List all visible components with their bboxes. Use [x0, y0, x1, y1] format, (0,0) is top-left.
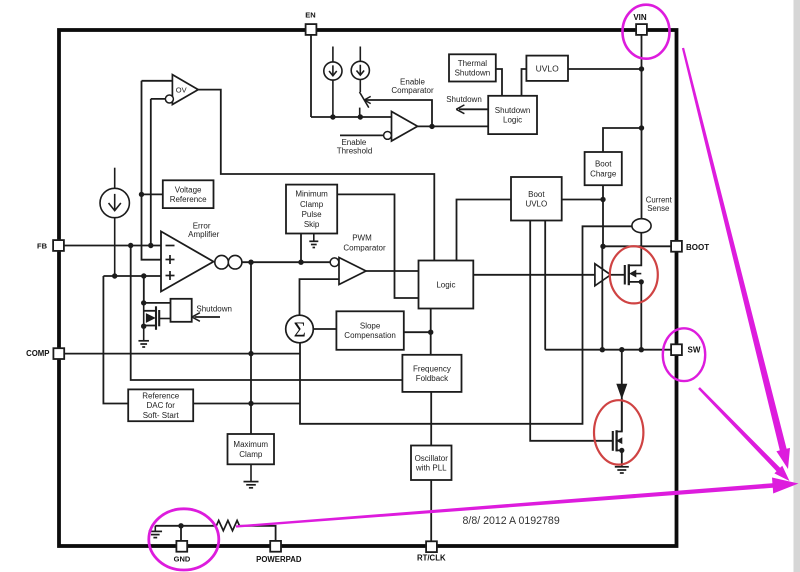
annotation arrow from GND resistor to right edge: [236, 478, 799, 528]
wire min clamp pulse skip to logic: [337, 194, 418, 298]
svg-text:PWM: PWM: [352, 234, 372, 243]
svg-text:Shutdown: Shutdown: [196, 305, 232, 314]
wire voltage reference tap: [142, 193, 163, 195]
summing node sigma: [286, 315, 314, 343]
label Shutdown near logic: [446, 95, 482, 104]
wire soft-start node: [103, 275, 161, 277]
annotation arrow from SW to bottom right: [698, 387, 789, 481]
label FB: [37, 241, 48, 250]
wire oscillator to RT/CLK pin: [430, 480, 432, 541]
block Shutdown gate box: [171, 299, 192, 322]
wire reference line to error amp: [142, 81, 162, 260]
wire OV inverting input from FB: [151, 99, 166, 246]
block Boot Charge: [585, 152, 622, 185]
wire reference DAC right: [193, 403, 300, 405]
wire pwm comparator plus input from sigma: [300, 279, 340, 315]
error amp output gm symbol circles: [215, 255, 242, 269]
pin VIN: [636, 24, 647, 35]
wire boot charge to BOOT pin rail: [602, 185, 604, 246]
ground below low-side fet: [615, 467, 629, 473]
block Minimum Clamp Pulse Skip: [286, 185, 337, 234]
block UVLO: [526, 56, 568, 81]
label date code: [463, 515, 560, 527]
svg-text:BOOT: BOOT: [686, 243, 709, 252]
wire logic to slope comp node and frequency foldback: [430, 309, 432, 355]
svg-text:Logic: Logic: [503, 116, 522, 125]
wire EN horizontal rail to enable comparator: [311, 116, 392, 118]
wire FB pin to error amp: [64, 245, 161, 247]
label Error Amplifier: [188, 222, 219, 240]
pin COMP: [53, 348, 64, 359]
current source Ip (EN pullup 1): [324, 47, 342, 118]
svg-text:Maximum: Maximum: [233, 440, 268, 449]
label BOOT: [686, 243, 709, 252]
svg-text:GND: GND: [174, 554, 191, 563]
svg-text:Shutdown: Shutdown: [446, 95, 482, 104]
arrow Shutdown into gate box: [192, 313, 220, 322]
wire min clamp to error amp output: [300, 234, 302, 263]
svg-text:Sense: Sense: [647, 204, 669, 213]
svg-text:Reference: Reference: [170, 195, 207, 204]
svg-text:Comparator: Comparator: [343, 243, 386, 252]
high-side gate driver amplifier: [595, 247, 625, 349]
wire COMP column: [250, 262, 252, 434]
block Oscillator with PLL: [411, 446, 452, 481]
label SW: [688, 346, 701, 355]
svg-text:Threshold: Threshold: [337, 147, 373, 156]
wire COMP pin: [64, 353, 300, 355]
pin POWERPAD: [270, 541, 281, 552]
svg-text:UVLO: UVLO: [536, 63, 560, 73]
svg-text:Amplifier: Amplifier: [188, 230, 219, 239]
transistor low-side NMOS: [613, 399, 625, 467]
pin SW: [671, 344, 682, 355]
svg-text:Boot: Boot: [528, 190, 545, 199]
label Shutdown near gate box: [196, 305, 232, 314]
annotation magenta circle around VIN: [623, 5, 670, 59]
current source soft-start: [100, 168, 129, 276]
transistor high-side NMOS: [625, 233, 644, 350]
svg-text:Shutdown: Shutdown: [495, 106, 531, 115]
block Maximum Clamp: [228, 434, 275, 464]
svg-text:VIN: VIN: [633, 13, 647, 22]
wire GND network: [155, 526, 216, 541]
current sense element: [632, 219, 651, 233]
svg-text:Voltage: Voltage: [175, 185, 202, 194]
wire pwm output to logic: [366, 270, 419, 272]
svg-text:Shutdown: Shutdown: [455, 69, 491, 78]
label Current Sense: [646, 196, 673, 213]
ground at GND pin: [149, 526, 163, 538]
wire shutdown fet drop: [143, 276, 145, 303]
label COMP: [26, 349, 49, 358]
wire logic to high-side driver: [473, 274, 595, 276]
label POWERPAD: [256, 555, 302, 564]
wire resistor to POWERPAD: [240, 526, 276, 541]
svg-text:Boot: Boot: [595, 160, 612, 169]
wire SW rail: [545, 349, 671, 351]
label GND: [174, 554, 191, 563]
label PWM Comparator: [343, 234, 386, 253]
label VIN: [633, 13, 647, 22]
pin RT/CLK: [426, 541, 437, 552]
pin BOOT: [671, 241, 682, 252]
arrow into low-side fet: [617, 384, 627, 398]
svg-text:Compensation: Compensation: [344, 331, 396, 340]
wire error amp output: [242, 261, 330, 263]
wire sigma to slope compensation: [313, 328, 336, 330]
annotation red circle around high-side fet: [610, 246, 658, 303]
resistor between GND and POWERPAD: [216, 521, 239, 531]
wire enable comparator output to shutdown logic: [418, 125, 489, 127]
transistor shutdown pulldown FET: [144, 303, 171, 341]
svg-text:POWERPAD: POWERPAD: [256, 555, 302, 564]
svg-text:DAC for: DAC for: [146, 401, 175, 410]
annotation red circle around low-side fet: [594, 400, 643, 464]
op-amp PWM Comparator: [330, 258, 366, 285]
block Thermal Shutdown: [449, 54, 496, 81]
wire SW to low-side fet: [621, 350, 623, 432]
svg-text:Foldback: Foldback: [416, 374, 449, 383]
annotation magenta circle around SW: [663, 328, 705, 381]
label EN: [305, 11, 315, 20]
svg-text:Clamp: Clamp: [239, 450, 263, 459]
block Shutdown Logic: [488, 96, 537, 134]
label Enable Threshold: [337, 138, 373, 156]
svg-text:Oscillator: Oscillator: [415, 454, 449, 463]
wire boot uvlo to low-side gate line: [530, 221, 613, 441]
block Voltage Reference: [163, 180, 214, 208]
wire uvlo left to shutdown logic: [522, 69, 527, 96]
label RT/CLK: [417, 554, 446, 563]
arrow Shutdown out of shutdown logic: [456, 105, 488, 114]
annotation magenta circle around GND: [149, 509, 219, 570]
svg-text:Frequency: Frequency: [413, 364, 451, 373]
svg-text:UVLO: UVLO: [525, 199, 547, 208]
wire OV comparator output to logic: [198, 90, 434, 261]
svg-text:FB: FB: [37, 241, 48, 250]
svg-text:Clamp: Clamp: [300, 200, 324, 209]
wire VIN rail down: [641, 35, 643, 219]
op-amp Error Amplifier: [161, 231, 214, 291]
pin FB: [53, 240, 64, 251]
svg-text:EN: EN: [305, 11, 315, 20]
svg-text:Skip: Skip: [304, 220, 320, 229]
wire OV top input: [142, 80, 173, 82]
wire current sense tap: [300, 226, 632, 423]
ground below min clamp box: [309, 234, 318, 248]
svg-text:8/8/ 2012 A 0192789: 8/8/ 2012 A 0192789: [463, 515, 560, 527]
block Frequency Foldback: [402, 355, 461, 392]
wire VIN rail to boot charge: [603, 128, 642, 152]
wire enable threshold input: [340, 134, 384, 136]
svg-text:with PLL: with PLL: [415, 463, 447, 472]
block Boot UVLO: [511, 177, 562, 221]
wire soft-start branch to reference DAC: [103, 276, 128, 404]
wire shutdown fet to gate box: [144, 302, 171, 304]
ground below shutdown FET: [138, 341, 149, 347]
svg-text:Pulse: Pulse: [302, 210, 323, 219]
ground below maximum clamp: [244, 464, 259, 488]
wire boot charge rail to boot uvlo: [562, 199, 603, 201]
wire thermal shutdown to shutdown logic: [496, 69, 502, 96]
op-amp OV comparator: [165, 75, 198, 105]
svg-text:Σ: Σ: [294, 318, 306, 342]
wire FB to frequency foldback: [131, 246, 403, 381]
wire boot uvlo down to SW rail: [544, 221, 546, 350]
wire frequency foldback to oscillator: [430, 392, 432, 446]
svg-text:Logic: Logic: [436, 280, 455, 289]
scrollbar strip right edge: [794, 0, 800, 572]
block Slope Compensation: [336, 311, 403, 350]
wire boot uvlo left to logic: [457, 200, 512, 261]
label Enable Comparator: [391, 77, 434, 95]
pin EN: [306, 24, 317, 35]
wire EN pin drop: [310, 35, 312, 117]
svg-text:Charge: Charge: [590, 169, 617, 178]
wire slope comp to foldback node: [404, 331, 431, 333]
wire BOOT pin connection: [603, 245, 671, 247]
svg-text:Comparator: Comparator: [391, 86, 434, 95]
annotation arrow from VIN to bottom right: [682, 48, 790, 469]
svg-text:OV: OV: [176, 85, 187, 94]
svg-text:Soft- Start: Soft- Start: [143, 411, 180, 420]
switch for hysteresis current: [360, 92, 369, 117]
wire hysteresis feedback from switch to comparator output: [364, 96, 432, 126]
wire boot rail BOOT to SW: [601, 246, 603, 349]
svg-text:SW: SW: [688, 346, 701, 355]
svg-text:Minimum: Minimum: [295, 190, 328, 199]
pin GND: [176, 541, 187, 552]
svg-text:COMP: COMP: [26, 349, 49, 358]
svg-text:RT/CLK: RT/CLK: [417, 554, 446, 563]
svg-text:Thermal: Thermal: [458, 59, 488, 68]
chip outline border: [59, 30, 677, 546]
svg-text:Slope: Slope: [360, 322, 381, 331]
block Reference DAC for Soft-Start: [128, 389, 193, 421]
svg-text:Reference: Reference: [142, 392, 179, 401]
current source Ih (EN hysteresis): [351, 47, 369, 93]
wire uvlo right to VIN rail: [568, 68, 642, 70]
block Logic: [419, 261, 474, 309]
op-amp Enable Comparator: [384, 112, 418, 142]
